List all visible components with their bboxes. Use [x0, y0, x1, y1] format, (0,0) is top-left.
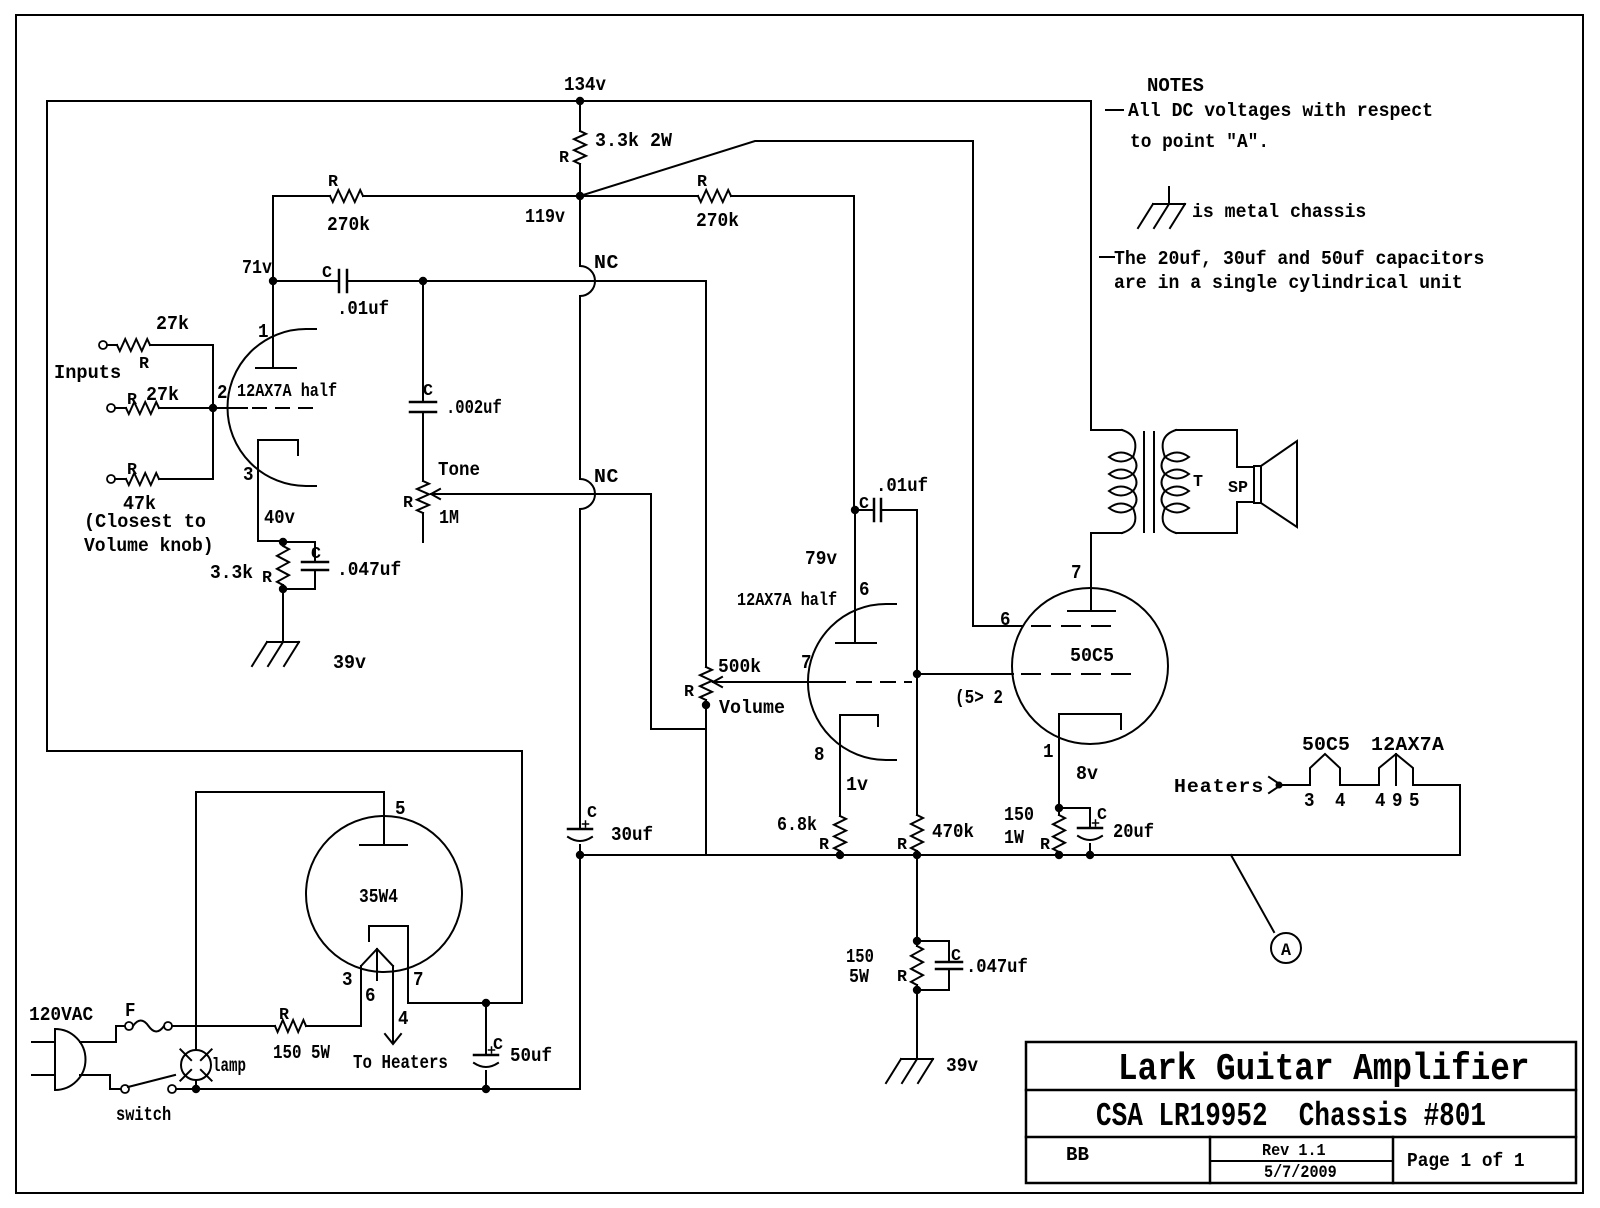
rectifier U4 35W4 envelope	[306, 816, 462, 972]
svg-text:12AX7A half: 12AX7A half	[237, 382, 337, 403]
wire 30uf down to AC return bus	[579, 855, 581, 1089]
svg-text:6.8k: 6.8k	[777, 814, 817, 837]
wire B+ riser	[47, 751, 522, 1003]
wire 50C5 grid1	[917, 673, 1013, 675]
wire B+ rail 134v from feedback loop to output transformer	[47, 101, 1091, 751]
node 20uf bus	[1086, 851, 1094, 859]
wire NC line from 119v node down	[579, 196, 581, 266]
wire hop NC 2	[580, 479, 595, 509]
svg-text:150 5W: 150 5W	[273, 1043, 330, 1065]
svg-text:BB: BB	[1066, 1144, 1089, 1166]
capacitor C .01uf (coupling 2)	[851, 506, 859, 514]
svg-text:50uf: 50uf	[510, 1044, 552, 1067]
speaker SP	[1254, 466, 1261, 503]
svg-text:All DC voltages with respect: All DC voltages with respect	[1128, 99, 1433, 122]
node 50uf	[482, 999, 490, 1007]
svg-text:50C5: 50C5	[1302, 733, 1350, 756]
node 150 1W bus	[1055, 851, 1063, 859]
svg-text:12AX7A: 12AX7A	[1371, 733, 1444, 756]
svg-text:4: 4	[1375, 789, 1386, 812]
wire lamp bottom	[195, 1080, 197, 1089]
svg-text:is metal chassis: is metal chassis	[1192, 200, 1366, 223]
svg-text:SP: SP	[1228, 479, 1248, 498]
svg-text:The 20uf, 30uf and 50uf capaci: The 20uf, 30uf and 50uf capacitors	[1114, 247, 1484, 270]
resistor R 27k (input 1)	[107, 344, 117, 346]
svg-text:35W4: 35W4	[359, 887, 398, 909]
svg-text:R: R	[897, 836, 908, 855]
svg-text:R: R	[684, 683, 695, 702]
node 6.8k bus	[836, 851, 844, 859]
node tone branch	[419, 277, 427, 285]
node 150 5W bottom	[913, 986, 921, 994]
triode U1 12AX7A half (input stage) envelope	[228, 329, 307, 486]
node volume bottom	[702, 701, 710, 709]
svg-text:To Heaters: To Heaters	[353, 1053, 448, 1075]
svg-text:39v: 39v	[333, 651, 367, 674]
svg-text:are in a single cylindrical un: are in a single cylindrical unit	[1114, 271, 1463, 294]
svg-text:270k: 270k	[327, 213, 370, 236]
node input junction	[209, 404, 217, 412]
capacitor C 20uf	[1059, 808, 1090, 828]
ground chassis 39v (B-)	[901, 1058, 933, 1060]
heater 50C5 bump pins 3-4	[1310, 754, 1340, 785]
svg-text:6: 6	[365, 984, 376, 1007]
triode 1 cathode pin 3	[258, 440, 298, 541]
node 30uf bus	[576, 851, 584, 859]
wire to volume pot top	[423, 281, 706, 667]
triode U2 12AX7A half (driver) envelope	[808, 604, 886, 760]
resistor R 150 1W	[1058, 808, 1060, 815]
heater 12AX7A bump pins 4-9-5	[1379, 754, 1413, 785]
svg-text:T: T	[1193, 473, 1203, 492]
svg-text:Volume: Volume	[719, 696, 785, 719]
wire 71v plate branch	[272, 196, 274, 281]
ground chassis 39v (input stage)	[267, 641, 299, 643]
wire to ground	[282, 589, 284, 642]
wire diagonal from 119v node to 50C5 grid2 feed	[580, 141, 973, 626]
svg-text:79v: 79v	[805, 547, 837, 570]
triode 2 grid dashes pin 7	[857, 681, 871, 683]
svg-text:1: 1	[1043, 740, 1054, 763]
svg-text:CSA LR19952 Chassis #801: CSA LR19952 Chassis #801	[1096, 1097, 1486, 1135]
wire coupling to 50C5 grid	[916, 510, 918, 674]
svg-text:3: 3	[1304, 789, 1315, 812]
svg-text:12AX7A half: 12AX7A half	[737, 591, 837, 612]
wire input join	[212, 345, 214, 479]
wire bus to heaters riser	[1459, 785, 1461, 855]
svg-text:R: R	[262, 569, 273, 588]
lamp	[181, 1050, 211, 1080]
wire 270k right to triode plate drop	[731, 196, 854, 510]
svg-text:R: R	[279, 1006, 290, 1025]
svg-text:6: 6	[1000, 608, 1011, 631]
svg-text:50C5: 50C5	[1070, 645, 1114, 667]
svg-text:4: 4	[398, 1007, 409, 1030]
svg-text:1v: 1v	[846, 773, 869, 796]
svg-text:3: 3	[342, 968, 353, 991]
svg-text:C: C	[423, 382, 433, 401]
svg-text:1M: 1M	[439, 507, 459, 530]
resistor R 470k	[911, 815, 923, 851]
wire cathode to bias network	[258, 540, 283, 542]
svg-text:R: R	[127, 391, 138, 410]
svg-text:.01uf: .01uf	[876, 474, 928, 497]
svg-text:R: R	[819, 836, 830, 855]
resistor R 270k (right)	[698, 190, 731, 202]
svg-text:R: R	[328, 173, 339, 192]
tone wiper arrow	[431, 489, 440, 499]
heater chevron	[1269, 777, 1281, 793]
svg-text:Volume knob): Volume knob)	[84, 534, 214, 557]
svg-text:6: 6	[859, 578, 870, 601]
capacitor C .002uf	[422, 281, 424, 402]
svg-text:Inputs: Inputs	[54, 362, 121, 385]
wire plug to switch	[80, 1075, 121, 1089]
wire grid 1	[213, 407, 247, 409]
50C5 plate pin 7	[1090, 533, 1092, 611]
svg-text:120VAC: 120VAC	[29, 1003, 93, 1026]
svg-text:R: R	[139, 355, 150, 374]
node 50C5 grid	[913, 670, 921, 678]
svg-text:20uf: 20uf	[1113, 821, 1154, 844]
resistor R 3.3k (cathode bias)	[277, 546, 289, 585]
wire resistor to 35W4 pin3	[306, 1025, 361, 1027]
node 50uf bus	[482, 1085, 490, 1093]
svg-text:1: 1	[258, 320, 269, 343]
svg-text:500k: 500k	[718, 655, 761, 678]
svg-text:8v: 8v	[1076, 762, 1099, 785]
wire cathode to 6.8k	[839, 739, 841, 816]
svg-text:R: R	[127, 461, 138, 480]
svg-text:8: 8	[814, 743, 825, 766]
resistor R 27k (input 2)	[115, 407, 126, 409]
svg-text:R: R	[697, 173, 708, 192]
svg-text:NC: NC	[594, 465, 619, 488]
svg-text:C: C	[311, 545, 321, 564]
wire tone wiper to volume bottom	[651, 494, 706, 729]
heaters wire	[1281, 784, 1310, 786]
triode 1 grid dashes pin 2	[253, 407, 266, 409]
svg-text:Page 1 of 1: Page 1 of 1	[1407, 1150, 1525, 1172]
to heaters arrow head	[385, 1034, 401, 1044]
svg-text:lamp: lamp	[212, 1056, 246, 1078]
svg-text:3.3k 2W: 3.3k 2W	[595, 129, 672, 152]
capacitor C .01uf (coupling 1)	[273, 280, 339, 282]
svg-text:F: F	[125, 999, 136, 1022]
wire 35W4 cathode to B+ riser	[408, 1002, 522, 1004]
wire lamp top to 35W4 plate	[195, 792, 197, 1050]
resistor R 270k (left)	[330, 190, 363, 202]
leader to point A	[1231, 855, 1274, 932]
svg-text:.047uf: .047uf	[337, 558, 401, 581]
wire 470k down	[916, 855, 918, 941]
50C5 grid1 dashes	[1022, 673, 1040, 675]
svg-text:NC: NC	[594, 251, 619, 274]
svg-text:.002uf: .002uf	[446, 397, 502, 419]
35W4 plate pin 5 wire	[196, 792, 384, 845]
svg-text:R: R	[1040, 836, 1051, 855]
svg-text:270k: 270k	[696, 209, 739, 232]
svg-text:30uf: 30uf	[611, 823, 653, 846]
svg-text:2: 2	[217, 381, 228, 404]
svg-text:NOTES: NOTES	[1147, 75, 1204, 97]
svg-text:C: C	[322, 264, 332, 283]
svg-text:3.3k: 3.3k	[210, 561, 253, 584]
chassis symbol in notes	[1168, 187, 1170, 204]
svg-text:Heaters: Heaters	[1174, 775, 1264, 798]
transformer core	[1143, 432, 1145, 532]
resistor R 6.8k	[834, 816, 846, 851]
35W4 heater	[361, 949, 393, 966]
svg-text:3: 3	[243, 463, 254, 486]
wire 270k to 119v node	[363, 195, 580, 197]
wire 119v rail	[273, 195, 330, 197]
node 134v	[576, 97, 584, 105]
pentode U3 50C5 envelope	[1012, 588, 1168, 744]
triode 1 plate pin 1	[272, 281, 274, 368]
wire 8v node	[1055, 804, 1063, 812]
node bias bottom	[279, 585, 287, 593]
wire to ground 2	[916, 990, 918, 1059]
svg-text:switch: switch	[116, 1104, 171, 1126]
svg-text:(Closest to: (Closest to	[84, 510, 206, 533]
node 119v	[576, 192, 584, 200]
svg-text:C: C	[859, 495, 869, 514]
svg-text:A: A	[1281, 942, 1292, 962]
svg-text:134v: 134v	[564, 73, 606, 96]
wire grid node down to 470k	[916, 674, 918, 815]
node A circle	[1271, 933, 1301, 963]
resistor R 150 5W (surge)	[275, 1020, 306, 1032]
50C5 grid2 pin 6 wire	[973, 625, 1022, 627]
resistor R 47k (input 3)	[115, 478, 126, 480]
svg-text:71v: 71v	[242, 257, 272, 280]
wire 119v node to 270k right	[580, 195, 698, 197]
50C5 cathode pin 1	[1059, 714, 1121, 808]
svg-text:5/7/2009: 5/7/2009	[1264, 1162, 1337, 1182]
svg-text:1W: 1W	[1004, 827, 1024, 850]
node 150 5W top	[913, 937, 921, 945]
resistor R 3.3k 2W	[579, 101, 581, 131]
wire plug to fuse	[80, 1026, 125, 1042]
svg-text:7: 7	[801, 651, 812, 674]
capacitor C .047uf (cathode bypass)	[283, 542, 315, 562]
transformer T secondary	[1163, 430, 1176, 457]
AC return bus	[177, 1088, 580, 1090]
wire hop NC 1	[580, 266, 595, 296]
svg-text:27k: 27k	[156, 312, 189, 335]
ground bus wire y855	[580, 854, 1460, 856]
svg-text:27k: 27k	[146, 383, 179, 406]
svg-text:4: 4	[1335, 789, 1346, 812]
triode 2 cathode pin 8	[840, 715, 878, 739]
svg-text:.047uf: .047uf	[966, 956, 1028, 978]
svg-text:5: 5	[395, 797, 406, 820]
transformer T primary	[1091, 429, 1122, 431]
node bias top	[279, 538, 287, 546]
svg-text:C: C	[493, 1036, 503, 1055]
svg-text:C: C	[1097, 806, 1107, 825]
plug 120VAC	[54, 1029, 56, 1090]
svg-text:Rev 1.1: Rev 1.1	[1262, 1141, 1326, 1160]
wire secondary to speaker	[1176, 430, 1254, 467]
capacitor C 50uf	[485, 1003, 487, 1055]
svg-text:470k: 470k	[932, 820, 974, 843]
svg-text:7: 7	[413, 968, 424, 991]
svg-text:(5> 2: (5> 2	[955, 688, 1003, 710]
svg-text:.01uf: .01uf	[337, 297, 389, 320]
volume wiper arrow	[713, 677, 722, 687]
triode 2 plate pin 6	[854, 510, 856, 643]
title block	[1026, 1042, 1576, 1183]
svg-text:40v: 40v	[264, 507, 295, 529]
node 470k bus	[913, 851, 921, 859]
potentiometer R 500k Volume	[700, 667, 712, 700]
svg-text:to point "A".: to point "A".	[1130, 130, 1269, 153]
capacitor C 30uf	[568, 828, 592, 831]
svg-text:R: R	[897, 968, 908, 987]
svg-text:5: 5	[1409, 789, 1420, 812]
svg-text:39v: 39v	[946, 1054, 978, 1077]
node lamp bus	[192, 1085, 200, 1093]
50C5 grid2 dashes	[1032, 625, 1050, 627]
svg-text:R: R	[403, 494, 414, 513]
wire fuse to resistor	[172, 1025, 275, 1027]
input jacks: three open terminals	[99, 341, 107, 349]
35W4 cathode pin 7	[369, 926, 408, 1003]
svg-text:C: C	[951, 947, 961, 966]
svg-text:5W: 5W	[849, 966, 869, 989]
svg-text:C: C	[587, 804, 597, 823]
node 71v	[269, 277, 277, 285]
svg-text:Tone: Tone	[438, 458, 480, 481]
fuse F	[125, 1022, 133, 1030]
switch	[121, 1085, 129, 1093]
svg-text:150: 150	[1004, 804, 1034, 827]
svg-text:9: 9	[1392, 789, 1403, 812]
capacitor C .047uf 2	[917, 941, 949, 962]
svg-text:Lark Guitar Amplifier: Lark Guitar Amplifier	[1118, 1047, 1530, 1091]
svg-text:7: 7	[1071, 561, 1082, 584]
resistor R 150 5W (B- dropping)	[916, 941, 918, 946]
svg-text:119v: 119v	[525, 206, 565, 229]
svg-text:R: R	[559, 149, 570, 168]
potentiometer R 1M Tone	[417, 481, 429, 513]
